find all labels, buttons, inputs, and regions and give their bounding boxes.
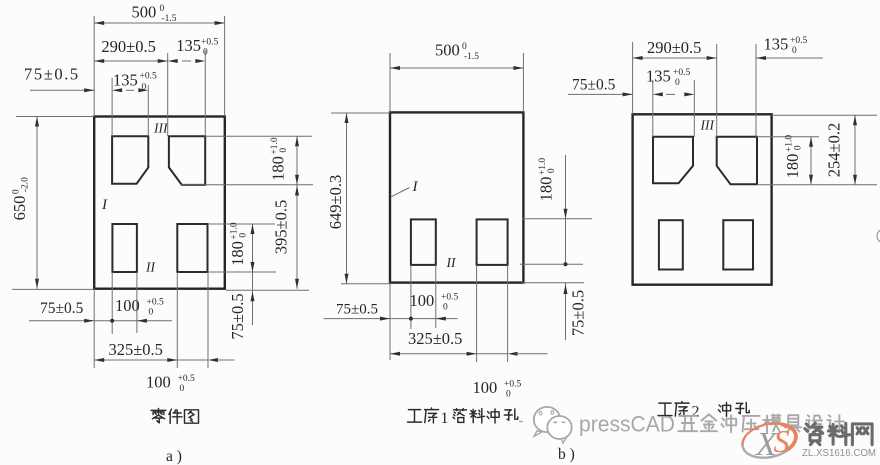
partial circle right edge <box>877 230 880 243</box>
svg-text:180: 180 <box>269 156 288 181</box>
svg-text:II: II <box>446 255 457 270</box>
svg-text:75±0.5: 75±0.5 <box>572 77 616 94</box>
dim 100 bottom-left a <box>110 319 114 323</box>
svg-text:0: 0 <box>794 145 804 150</box>
svg-text:0: 0 <box>443 303 448 313</box>
svg-text:325±0.5: 325±0.5 <box>109 340 163 359</box>
svg-text:I: I <box>412 179 419 195</box>
dim 290 a <box>94 60 168 62</box>
svg-text:325±0.5: 325±0.5 <box>408 329 462 348</box>
caption 工序2 冲孔 <box>658 403 672 416</box>
dim 135 left a <box>112 88 122 92</box>
svg-text:S: S <box>774 423 790 459</box>
svg-text:75±0.5: 75±0.5 <box>569 290 588 336</box>
dim 135 top-right c <box>756 57 823 59</box>
watermark wechat icon <box>534 407 560 432</box>
label I b with leader <box>391 188 409 197</box>
dim 180 upper right a <box>296 136 298 288</box>
hole III left a <box>112 136 148 183</box>
ext lines right b <box>522 218 592 220</box>
svg-text:650: 650 <box>10 196 29 221</box>
ext lines bottom b <box>410 265 412 329</box>
svg-text:75±0.5: 75±0.5 <box>228 293 247 339</box>
dim 650 a <box>16 116 94 118</box>
dim 254 right c <box>854 115 856 185</box>
watermark 五金冲压模具设计 <box>678 416 697 431</box>
hole II left c <box>659 220 683 269</box>
dim 100 bottom-left b <box>409 317 413 321</box>
svg-text:100: 100 <box>410 291 435 310</box>
extension lines top a <box>93 16 95 117</box>
svg-text:290±0.5: 290±0.5 <box>647 38 701 57</box>
dim 75 lower right a <box>252 290 254 325</box>
svg-text:0: 0 <box>279 148 289 153</box>
ext lines right a <box>205 135 312 137</box>
dim 135 left c <box>653 92 663 96</box>
svg-text:II: II <box>145 260 156 275</box>
svg-text:1: 1 <box>441 410 449 427</box>
svg-text:254±0.2: 254±0.2 <box>825 123 844 177</box>
svg-text:500: 500 <box>132 3 157 22</box>
hole II left b <box>411 219 436 265</box>
caption 零件图 <box>151 409 166 423</box>
svg-text:pressCAD: pressCAD <box>579 412 675 437</box>
svg-text:0: 0 <box>547 168 557 173</box>
svg-text:+0.5: +0.5 <box>673 68 690 78</box>
dim 75 bottom a <box>29 320 172 322</box>
svg-text:135: 135 <box>113 71 138 90</box>
svg-text:0: 0 <box>239 233 249 238</box>
hole II left a <box>112 224 136 272</box>
part outline c <box>633 114 772 284</box>
stray mark left of icon <box>519 421 523 423</box>
svg-text:-2.0: -2.0 <box>21 177 31 192</box>
svg-text:0: 0 <box>792 46 797 56</box>
dim 500 b <box>389 53 391 112</box>
svg-text:a ): a ) <box>166 448 182 465</box>
dim 395 right a <box>295 186 299 196</box>
hole II right c <box>723 220 753 269</box>
logo XS swoosh ellipse <box>743 438 794 458</box>
svg-text:100: 100 <box>473 378 498 397</box>
dim 75 c <box>568 93 633 95</box>
hole II right a <box>177 224 207 272</box>
dim 180 right b <box>565 155 567 264</box>
part outline a <box>94 117 225 289</box>
svg-text:0: 0 <box>506 390 511 400</box>
ext lines right c <box>772 114 877 116</box>
svg-text:+0.5: +0.5 <box>178 374 195 384</box>
dim 180 lower right a <box>208 223 276 225</box>
dim 75 right b <box>565 283 567 340</box>
part outline b <box>390 112 523 282</box>
svg-text:75±0.5: 75±0.5 <box>40 300 84 317</box>
svg-text:+0.5: +0.5 <box>147 298 164 308</box>
svg-text:180: 180 <box>537 177 556 202</box>
dim 325 b <box>390 353 477 355</box>
svg-text:-1.5: -1.5 <box>162 14 177 24</box>
svg-text:100: 100 <box>115 296 140 315</box>
svg-text:+0.5: +0.5 <box>504 380 521 390</box>
svg-text:+0.5: +0.5 <box>201 38 218 48</box>
dim 325 a <box>94 359 177 361</box>
dim 100 bottom-right a <box>177 359 208 361</box>
svg-text:100: 100 <box>146 373 171 392</box>
svg-text:2: 2 <box>692 404 700 421</box>
svg-text:ZL.XS1616.COM: ZL.XS1616.COM <box>802 448 876 459</box>
svg-text:0: 0 <box>180 384 185 394</box>
logo 资料网 <box>805 423 823 445</box>
dim 75 top-left a <box>30 89 94 91</box>
ext lines top c <box>632 42 634 114</box>
svg-text:75±0.5: 75±0.5 <box>336 302 378 318</box>
svg-text:0: 0 <box>462 42 467 52</box>
svg-text:0: 0 <box>675 78 680 88</box>
dim 180 right c <box>810 137 812 185</box>
svg-text:180: 180 <box>228 241 247 266</box>
svg-text:395±0.5: 395±0.5 <box>272 200 291 254</box>
svg-text:180: 180 <box>783 154 802 179</box>
dim 500 a <box>94 22 224 24</box>
hole III left c <box>653 137 693 184</box>
svg-text:+0.5: +0.5 <box>790 36 807 46</box>
svg-text:III: III <box>700 118 716 133</box>
dim 100 bottom-right b <box>477 353 508 355</box>
dim 75 bottom b <box>324 318 458 320</box>
dim 649 b <box>331 112 390 114</box>
svg-text:0: 0 <box>160 4 165 14</box>
svg-text:+0.5: +0.5 <box>441 293 458 303</box>
hole III right a <box>169 136 205 185</box>
svg-text:b ): b ) <box>558 446 575 463</box>
svg-text:135: 135 <box>646 67 671 86</box>
svg-text:+0.5: +0.5 <box>140 72 157 82</box>
svg-text:0: 0 <box>149 308 154 318</box>
svg-text:0: 0 <box>142 83 147 93</box>
svg-text:135: 135 <box>764 35 789 54</box>
svg-text:500: 500 <box>435 41 460 60</box>
svg-text:75±0.5: 75±0.5 <box>24 65 80 84</box>
svg-text:135: 135 <box>176 36 201 55</box>
dim 290 c <box>633 57 717 59</box>
svg-text:III: III <box>153 121 169 136</box>
hole III right c <box>717 137 757 185</box>
dim 135 top-right a <box>168 59 178 63</box>
hole II right b <box>477 219 508 265</box>
ext lines bottom a <box>111 272 113 334</box>
svg-text:290±0.5: 290±0.5 <box>101 37 155 56</box>
svg-text:-1.5: -1.5 <box>464 52 479 62</box>
svg-text:0: 0 <box>203 48 208 58</box>
svg-text:I: I <box>101 197 108 213</box>
svg-text:649±0.3: 649±0.3 <box>326 175 345 229</box>
caption 工序1 落料冲孔 <box>408 410 422 423</box>
